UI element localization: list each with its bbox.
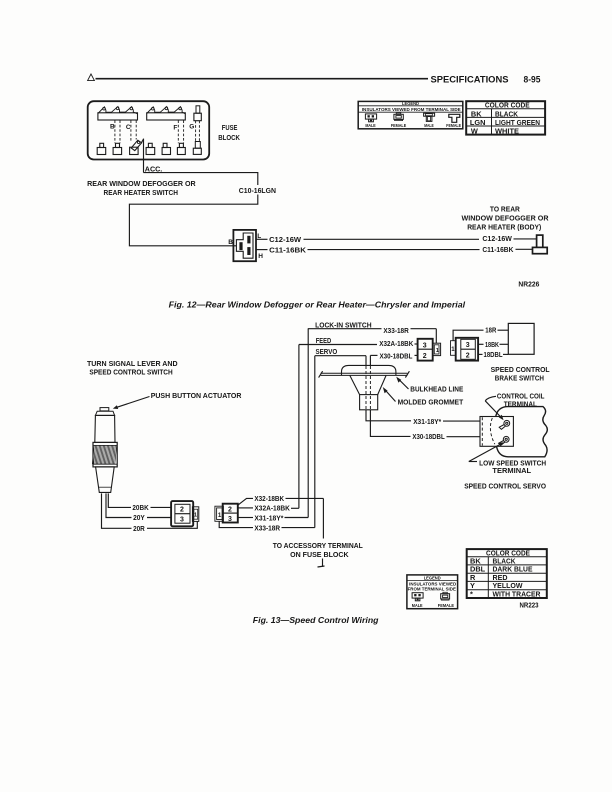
svg-text:TO ACCESSORY TERMINAL: TO ACCESSORY TERMINAL — [273, 543, 364, 550]
svg-text:3: 3 — [466, 342, 470, 349]
svg-text:INSULATORS VIEWED: INSULATORS VIEWED — [409, 581, 457, 586]
svg-text:ON FUSE BLOCK: ON FUSE BLOCK — [290, 552, 349, 559]
svg-text:TO REAR: TO REAR — [490, 206, 520, 213]
svg-text:MOLDED GROMMET: MOLDED GROMMET — [398, 400, 464, 407]
svg-text:FEMALE: FEMALE — [438, 603, 454, 608]
svg-text:MALE: MALE — [424, 123, 434, 128]
svg-text:FEMALE: FEMALE — [446, 123, 461, 128]
svg-text:3: 3 — [423, 342, 427, 349]
svg-text:Fig. 13—Speed Control Wiring: Fig. 13—Speed Control Wiring — [253, 615, 379, 625]
svg-text:X30-18DBL: X30-18DBL — [412, 434, 445, 441]
svg-text:20BK: 20BK — [132, 505, 148, 512]
svg-text:C11-16BK: C11-16BK — [482, 247, 513, 254]
svg-text:SPEED CONTROL SWITCH: SPEED CONTROL SWITCH — [89, 370, 172, 377]
svg-text:8-95: 8-95 — [524, 74, 542, 85]
svg-text:WITH TRACER: WITH TRACER — [493, 589, 542, 598]
svg-text:X33-18R: X33-18R — [383, 328, 408, 335]
svg-text:WINDOW DEFOGGER OR: WINDOW DEFOGGER OR — [462, 216, 549, 223]
svg-text:3: 3 — [180, 516, 184, 523]
svg-text:Fig. 12—Rear Window Defogger o: Fig. 12—Rear Window Defogger or Rear Hea… — [169, 299, 466, 309]
svg-text:B: B — [110, 123, 115, 130]
svg-text:REAR WINDOW DEFOGGER OR: REAR WINDOW DEFOGGER OR — [87, 181, 196, 188]
svg-text:C12-16W: C12-16W — [269, 237, 301, 244]
svg-text:MALE: MALE — [365, 123, 375, 128]
svg-text:REAR HEATER (BODY): REAR HEATER (BODY) — [467, 225, 541, 232]
svg-text:TURN SIGNAL LEVER AND: TURN SIGNAL LEVER AND — [87, 361, 178, 368]
svg-text:INSULATORS VIEWED FROM TERMINA: INSULATORS VIEWED FROM TERMINAL SIDE — [362, 107, 462, 113]
svg-text:20Y: 20Y — [133, 515, 145, 522]
svg-text:X31-18Y*: X31-18Y* — [413, 419, 441, 426]
svg-text:NR226: NR226 — [518, 282, 539, 289]
svg-text:COLOR CODE: COLOR CODE — [485, 101, 530, 110]
svg-text:SPECIFICATIONS: SPECIFICATIONS — [431, 74, 510, 85]
svg-text:LEGEND: LEGEND — [402, 101, 419, 107]
svg-text:C12-16W: C12-16W — [482, 236, 512, 243]
svg-text:BULKHEAD LINE: BULKHEAD LINE — [410, 387, 463, 394]
svg-text:SPEED CONTROL SERVO: SPEED CONTROL SERVO — [464, 483, 546, 490]
svg-text:1: 1 — [194, 512, 197, 518]
svg-text:1: 1 — [218, 512, 222, 519]
svg-text:W: W — [471, 127, 478, 136]
svg-text:FROM TERMINAL SIDE: FROM TERMINAL SIDE — [408, 587, 456, 592]
svg-text:B: B — [228, 239, 233, 246]
svg-text:MALE: MALE — [412, 603, 423, 608]
svg-text:2: 2 — [466, 353, 470, 360]
svg-text:H: H — [258, 253, 263, 260]
svg-text:CONTROL COIL: CONTROL COIL — [497, 394, 545, 401]
svg-text:BLOCK: BLOCK — [218, 135, 240, 142]
svg-text:2: 2 — [423, 353, 427, 360]
svg-text:G: G — [189, 124, 194, 131]
svg-text:ACC.: ACC. — [145, 166, 163, 173]
svg-text:NR223: NR223 — [520, 602, 539, 609]
svg-text:18DBL: 18DBL — [484, 352, 504, 359]
svg-text:18BK: 18BK — [485, 342, 499, 349]
svg-text:PUSH BUTTON ACTUATOR: PUSH BUTTON ACTUATOR — [151, 393, 242, 400]
svg-text:F: F — [173, 124, 177, 131]
svg-text:X32A-18BK: X32A-18BK — [254, 506, 290, 513]
svg-text:TERMINAL: TERMINAL — [504, 402, 538, 409]
svg-text:C10-16LGN: C10-16LGN — [239, 188, 276, 195]
svg-text:SERVO: SERVO — [316, 349, 338, 356]
svg-text:*: * — [470, 589, 473, 598]
svg-text:C: C — [126, 124, 131, 131]
svg-text:18R: 18R — [485, 327, 496, 334]
svg-text:3: 3 — [228, 516, 232, 523]
svg-text:FUSE: FUSE — [222, 125, 238, 132]
svg-text:C11-16BK: C11-16BK — [269, 247, 306, 254]
svg-text:2: 2 — [180, 507, 184, 514]
svg-text:20R: 20R — [133, 526, 145, 533]
svg-text:WHITE: WHITE — [495, 127, 519, 136]
svg-text:L: L — [257, 233, 261, 240]
svg-text:LOCK-IN SWITCH: LOCK-IN SWITCH — [315, 323, 372, 330]
svg-text:FEED: FEED — [316, 338, 332, 345]
svg-text:SPEED CONTROL: SPEED CONTROL — [491, 367, 551, 374]
svg-text:TERMINAL: TERMINAL — [492, 468, 531, 475]
svg-text:X32A-18BK: X32A-18BK — [379, 341, 413, 348]
svg-text:REAR HEATER SWITCH: REAR HEATER SWITCH — [104, 190, 179, 197]
svg-text:X32-18BK: X32-18BK — [254, 496, 284, 503]
svg-text:X30-18DBL: X30-18DBL — [380, 353, 414, 360]
svg-text:2: 2 — [228, 506, 232, 513]
svg-text:LOW SPEED SWITCH: LOW SPEED SWITCH — [479, 460, 546, 467]
svg-text:X33-18R: X33-18R — [254, 525, 280, 532]
svg-text:X31-18Y*: X31-18Y* — [254, 515, 283, 522]
svg-text:BRAKE SWITCH: BRAKE SWITCH — [495, 376, 544, 383]
svg-text:FEMALE: FEMALE — [391, 123, 406, 128]
